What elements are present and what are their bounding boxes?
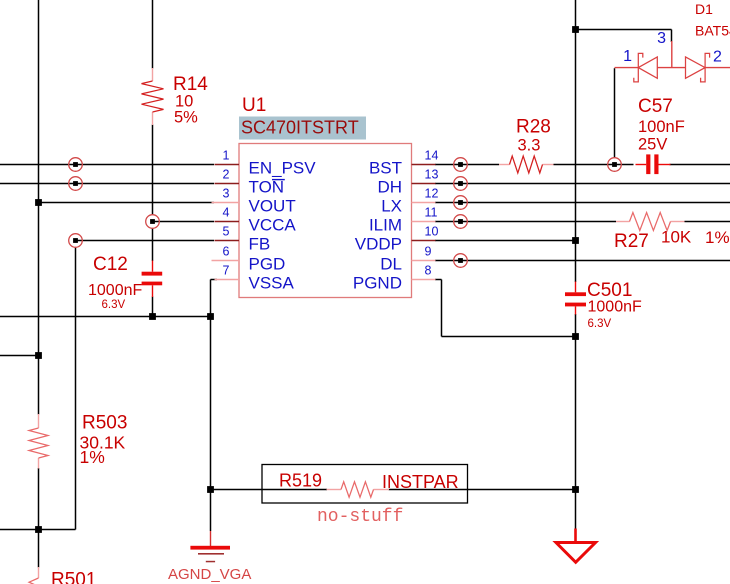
wire net VOUT row pin3 xyxy=(39,202,215,204)
wire x575 below C501 xyxy=(575,314,577,530)
svg-text:6: 6 xyxy=(223,245,230,259)
label U1 xyxy=(242,95,266,116)
svg-text:2: 2 xyxy=(223,168,230,182)
pin name EN_PSV xyxy=(249,159,317,178)
wire net EN_PSV row pin1 xyxy=(0,164,214,166)
svg-text:U1: U1 xyxy=(242,95,266,116)
svg-text:BAT54: BAT54 xyxy=(695,23,730,39)
wire ILIM row pin11 segments xyxy=(435,221,730,223)
svg-text:3: 3 xyxy=(657,30,666,47)
svg-text:25V: 25V xyxy=(638,136,667,154)
wire vertical x152 top xyxy=(152,0,154,69)
svg-text:5%: 5% xyxy=(174,109,198,127)
wire x38 lower segment xyxy=(38,468,40,568)
pin name TON xyxy=(249,178,285,197)
wire vertical x38 xyxy=(38,0,40,415)
junction x38 y529 xyxy=(35,526,42,533)
wire AGND horizontal y316 xyxy=(0,316,211,318)
junction PGND y336 xyxy=(572,333,579,340)
svg-text:C57: C57 xyxy=(638,96,673,117)
pin 7 stub xyxy=(215,279,240,281)
wire AGND to R519 to PGND y489 xyxy=(211,489,576,491)
tolerance R503 1pct xyxy=(80,447,105,467)
node DH test point xyxy=(454,177,468,191)
junction VOUT x38 xyxy=(35,199,42,206)
pin 6 stub xyxy=(212,260,240,262)
svg-text:10: 10 xyxy=(425,225,439,239)
note no-stuff xyxy=(317,507,403,527)
ground PGND triangle xyxy=(556,529,596,563)
capacitor C12 xyxy=(142,261,163,298)
resistor R503 xyxy=(29,414,48,469)
svg-text:100nF: 100nF xyxy=(638,118,685,136)
pin number 2 xyxy=(223,168,230,182)
node ILIM test point xyxy=(454,215,468,229)
pin name VDDP xyxy=(355,235,402,254)
value C501 1000nF xyxy=(588,299,642,316)
svg-text:R501: R501 xyxy=(51,570,96,584)
svg-text:12: 12 xyxy=(425,187,439,201)
wire PGND horizontal y336 xyxy=(442,336,576,338)
pin 11 stub xyxy=(412,221,436,223)
value R14 10 xyxy=(175,93,193,111)
pin name LX xyxy=(381,197,402,216)
svg-text:VDDP: VDDP xyxy=(355,235,402,254)
svg-text:1: 1 xyxy=(623,48,632,65)
svg-text:R503: R503 xyxy=(82,413,127,434)
label R27 xyxy=(614,231,649,252)
wire x152 R14 to VCCA circle xyxy=(152,125,154,216)
svg-text:R28: R28 xyxy=(516,117,551,138)
svg-text:VSSA: VSSA xyxy=(249,274,295,293)
junction x38 y355 xyxy=(35,352,42,359)
wire LX row pin12 xyxy=(435,202,730,204)
svg-text:1: 1 xyxy=(223,149,230,163)
svg-text:11: 11 xyxy=(425,206,438,220)
svg-text:EN_PSV: EN_PSV xyxy=(249,159,317,178)
value C12 1000nF xyxy=(88,282,142,299)
svg-text:1000nF: 1000nF xyxy=(588,299,642,316)
svg-text:1%: 1% xyxy=(705,228,730,247)
node DL test point xyxy=(454,254,468,268)
svg-text:DH: DH xyxy=(377,178,402,197)
junction AGND y489 xyxy=(207,486,214,493)
svg-text:13: 13 xyxy=(425,168,439,182)
resistor R27 xyxy=(616,213,685,231)
junction C12 y316 xyxy=(149,313,156,320)
junction VDDP xyxy=(572,237,579,244)
svg-text:VCCA: VCCA xyxy=(249,216,297,235)
wire vertical x75 FB down xyxy=(75,247,77,529)
pin 9 stub xyxy=(412,260,436,262)
voltage C501 6.3V xyxy=(588,318,612,330)
resistor R501 xyxy=(29,567,48,584)
pin 10 stub xyxy=(412,240,436,242)
resistor R28 xyxy=(499,156,554,173)
part number highlight xyxy=(239,117,366,140)
svg-text:ILIM: ILIM xyxy=(369,216,402,235)
wire net TON row pin2 xyxy=(0,183,214,185)
pin number 14 xyxy=(425,149,439,163)
svg-text:R27: R27 xyxy=(614,231,649,252)
junction y489 right xyxy=(572,486,579,493)
pin number D1-3 xyxy=(657,30,666,47)
svg-text:D1: D1 xyxy=(695,1,713,17)
tolerance R27 1pct xyxy=(705,228,730,247)
svg-text:14: 14 xyxy=(425,149,439,163)
pin number 7 xyxy=(223,264,230,278)
capacitor C501 xyxy=(565,282,586,315)
svg-text:C12: C12 xyxy=(93,254,128,275)
svg-text:FB: FB xyxy=(249,235,271,254)
value R28 3.3 xyxy=(518,137,541,155)
svg-text:INSTPAR: INSTPAR xyxy=(382,472,459,492)
svg-text:6.3V: 6.3V xyxy=(588,318,612,330)
wire PGND pin8 down xyxy=(435,280,442,337)
pin name ILIM xyxy=(369,216,402,235)
wire net FB row pin5 xyxy=(76,240,215,242)
pin 14 stub xyxy=(412,164,436,166)
wire net VCCA row pin4 xyxy=(153,221,215,223)
pin number 5 xyxy=(223,225,230,239)
svg-text:10K: 10K xyxy=(661,228,692,247)
label R503 xyxy=(82,413,127,434)
junction D1 branch xyxy=(572,26,579,33)
wire pin7 VSSA to AGND vertical xyxy=(211,280,218,317)
pin number 3 xyxy=(223,187,230,201)
label D1 xyxy=(695,1,713,17)
svg-text:AGND_VGA: AGND_VGA xyxy=(168,566,251,583)
pin 3 stub xyxy=(212,202,240,204)
wire x152 C12 to junction xyxy=(152,297,154,317)
svg-text:SC470ITSTRT: SC470ITSTRT xyxy=(241,118,359,138)
pin 4 stub xyxy=(215,221,240,223)
wire BST row right segments xyxy=(435,164,730,166)
pin number D1-2 xyxy=(713,49,722,66)
pin name VSSA xyxy=(249,274,295,293)
pin number 8 xyxy=(425,264,432,278)
svg-text:DL: DL xyxy=(380,255,402,274)
svg-text:1%: 1% xyxy=(80,447,105,467)
pin 2 stub xyxy=(215,183,240,185)
wire DH row pin13 xyxy=(435,183,730,185)
resistor R519 xyxy=(327,482,390,497)
value R27 10K xyxy=(661,228,692,247)
svg-text:PGD: PGD xyxy=(249,255,286,274)
pin number 10 xyxy=(425,225,439,239)
label R14 xyxy=(173,74,208,95)
box R519 no-stuff xyxy=(262,465,468,504)
svg-text:no-stuff: no-stuff xyxy=(317,507,403,527)
op-amp U1 body SC470ITSTRT xyxy=(239,144,412,298)
pin 13 stub xyxy=(412,183,436,185)
label AGND_VGA xyxy=(168,566,251,583)
pin number D1-1 xyxy=(623,48,632,65)
svg-text:4: 4 xyxy=(223,206,230,220)
node BST test point xyxy=(454,158,468,172)
node EN_PSV test point xyxy=(69,158,83,172)
label C12 xyxy=(93,254,128,275)
pin number 9 xyxy=(425,245,432,259)
wire left stub y355 xyxy=(0,355,39,357)
label C57 xyxy=(638,96,673,117)
pin number 12 xyxy=(425,187,439,201)
voltage C57 25V xyxy=(638,136,667,154)
voltage C12 6.3V xyxy=(102,299,126,311)
pin 5 stub xyxy=(215,240,240,242)
svg-text:2: 2 xyxy=(713,49,722,66)
svg-text:9: 9 xyxy=(425,245,432,259)
node VCCA test point xyxy=(146,215,160,229)
pin number 13 xyxy=(425,168,439,182)
pin name DH xyxy=(377,178,402,197)
pin name BST xyxy=(369,159,402,178)
label R28 xyxy=(516,117,551,138)
svg-text:LX: LX xyxy=(381,197,402,216)
svg-text:7: 7 xyxy=(223,264,230,278)
node C57 test point xyxy=(608,158,622,172)
pin 12 stub xyxy=(412,202,436,204)
pin name PGD xyxy=(249,255,286,274)
pin number 6 xyxy=(223,245,230,259)
part number SC470ITSTRT xyxy=(241,118,359,138)
overbar TON xyxy=(272,179,285,181)
label R519 xyxy=(279,471,322,491)
wire AGND down to ground xyxy=(210,317,212,532)
svg-text:VOUT: VOUT xyxy=(249,197,296,216)
svg-text:8: 8 xyxy=(425,264,432,278)
svg-text:1000nF: 1000nF xyxy=(88,282,142,299)
pin name PGND xyxy=(353,274,402,293)
svg-text:PGND: PGND xyxy=(353,274,402,293)
svg-text:6.3V: 6.3V xyxy=(102,299,126,311)
value R503 30.1K xyxy=(80,433,126,453)
pin name DL xyxy=(380,255,402,274)
junction AGND y316 xyxy=(207,313,214,320)
wire D1 top branch y29 xyxy=(576,30,672,43)
node TON test point xyxy=(69,177,83,191)
pin number 4 xyxy=(223,206,230,220)
value C57 100nF xyxy=(638,118,685,136)
svg-text:TON: TON xyxy=(249,178,285,197)
pin name VOUT xyxy=(249,197,296,216)
value R519 INSTPAR xyxy=(382,472,459,492)
resistor R14 xyxy=(142,68,164,125)
svg-text:3.3: 3.3 xyxy=(518,137,541,155)
svg-text:5: 5 xyxy=(223,225,230,239)
wire bottom-left y529 xyxy=(0,529,76,531)
svg-text:R519: R519 xyxy=(279,471,322,491)
pin name VCCA xyxy=(249,216,297,235)
pin number 1 xyxy=(223,149,230,163)
svg-text:3: 3 xyxy=(223,187,230,201)
wire VDDP row pin10 xyxy=(435,240,576,242)
wire vertical x575 top xyxy=(575,0,577,282)
wire DL row pin9 xyxy=(435,260,730,262)
pin 1 stub xyxy=(215,164,240,166)
value D1 BAT54 xyxy=(695,23,730,39)
label C501 xyxy=(587,280,632,301)
svg-text:BST: BST xyxy=(369,159,402,178)
node FB test point xyxy=(69,234,83,248)
pin 8 stub xyxy=(412,279,436,281)
label R501 xyxy=(51,570,96,584)
capacitor C57 xyxy=(636,154,671,174)
node LX test point xyxy=(454,196,468,210)
wire x152 circle to C12 xyxy=(152,228,154,261)
wire D1 pin1 down to BST xyxy=(614,68,616,158)
tolerance R14 5pct xyxy=(174,109,198,127)
pin number 11 xyxy=(425,206,438,220)
pin name FB xyxy=(249,235,271,254)
ground AGND_VGA xyxy=(190,531,230,562)
diode D1 xyxy=(615,41,730,82)
